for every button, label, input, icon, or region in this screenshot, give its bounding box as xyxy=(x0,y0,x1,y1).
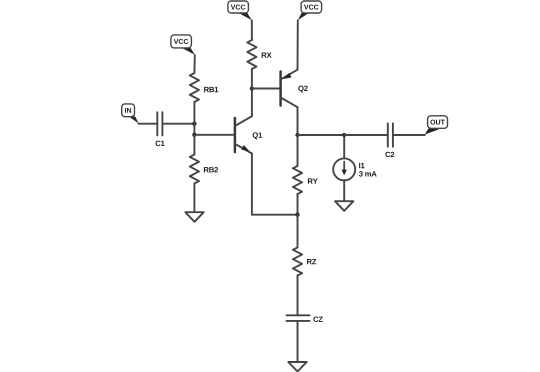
net label VCC left xyxy=(171,35,195,55)
label CZ xyxy=(313,317,322,322)
label I1 xyxy=(359,163,364,168)
net label VCC right xyxy=(298,1,322,20)
junction node C xyxy=(250,86,254,90)
current source I1 xyxy=(333,158,355,180)
wire IN to C1 xyxy=(139,123,158,125)
wire VCC to RB1 xyxy=(193,55,195,73)
junction node D xyxy=(295,133,299,137)
ground under CZ xyxy=(288,362,306,372)
wire I1 to ground xyxy=(343,180,345,201)
wire RX to node C xyxy=(251,69,253,89)
wire node B to RB2 xyxy=(193,135,195,155)
wire Q1 emitter down xyxy=(251,154,253,215)
junction node B xyxy=(192,133,196,137)
wire node F to I1 xyxy=(343,135,345,158)
capacitor C2 xyxy=(388,123,393,146)
label RX xyxy=(262,53,272,58)
resistor RB1 xyxy=(190,73,199,102)
wire CZ to ground xyxy=(297,321,299,362)
value label 3 mA xyxy=(359,171,377,176)
resistor RZ xyxy=(293,248,302,276)
wire Q1 collector to node C xyxy=(251,89,253,117)
capacitor CZ xyxy=(287,315,310,321)
transistor Q1 NPN xyxy=(235,116,252,153)
transistor Q2 PNP xyxy=(281,70,298,108)
ground under RB2 xyxy=(185,212,203,222)
capacitor C1 xyxy=(157,112,162,135)
resistor RB2 xyxy=(190,155,199,184)
ground under I1 xyxy=(335,201,353,211)
wire RZ to CZ xyxy=(297,276,299,316)
wire C1 to node A xyxy=(162,123,194,125)
label RB1 xyxy=(204,87,218,92)
wire Q1 emitter to node E xyxy=(252,214,298,216)
wire Q2 collector to node D xyxy=(297,107,299,135)
label RZ xyxy=(307,259,316,264)
wire node B to Q1 base xyxy=(194,134,235,136)
label C2 xyxy=(385,152,394,157)
wire node D to RY xyxy=(297,135,299,166)
wire node C to Q2 base xyxy=(252,88,281,90)
label RY xyxy=(308,178,318,183)
wire node D to node F xyxy=(298,134,345,136)
net label OUT xyxy=(425,116,448,135)
wire node E to RZ xyxy=(297,215,299,248)
wire node F to C2 xyxy=(344,134,388,136)
wire RY to node E xyxy=(297,194,299,215)
label Q1 xyxy=(253,132,262,139)
resistor RY xyxy=(293,166,302,194)
net label IN xyxy=(122,104,139,124)
label Q2 xyxy=(298,86,307,93)
wire C2 to OUT xyxy=(393,134,425,136)
label C1 xyxy=(156,141,165,146)
resistor RX xyxy=(247,40,256,69)
junction node E xyxy=(295,213,299,217)
wire VCC to Q2 emitter xyxy=(297,20,299,69)
wire VCC to RX xyxy=(251,20,253,40)
label RB2 xyxy=(204,167,218,172)
wire RB1 to node A xyxy=(193,102,195,135)
net label VCC middle xyxy=(228,1,252,20)
wire RB2 to ground xyxy=(193,184,195,213)
junction node F xyxy=(342,133,346,137)
junction node A xyxy=(192,122,196,126)
